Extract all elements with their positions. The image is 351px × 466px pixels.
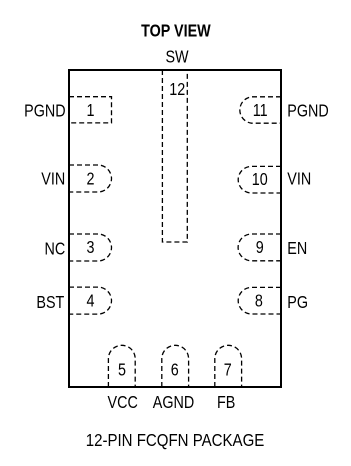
svg-text:PGND: PGND <box>24 102 65 121</box>
svg-text:EN: EN <box>287 240 307 259</box>
svg-text:1: 1 <box>87 102 95 121</box>
svg-text:VIN: VIN <box>41 170 65 189</box>
pin 6 AGND pad <box>162 345 189 387</box>
svg-text:TOP VIEW: TOP VIEW <box>141 22 211 41</box>
pin 10 VIN pad <box>238 166 281 193</box>
pin 11 PGND pad <box>240 97 281 123</box>
svg-text:4: 4 <box>87 292 95 311</box>
pin 9 EN pad <box>238 234 281 261</box>
svg-text:6: 6 <box>171 361 179 380</box>
svg-text:VIN: VIN <box>287 170 311 189</box>
svg-text:PG: PG <box>287 294 308 313</box>
svg-text:FB: FB <box>217 394 235 413</box>
svg-text:7: 7 <box>224 361 232 380</box>
svg-text:10: 10 <box>252 171 268 190</box>
pin 1 PGND pad <box>69 97 112 123</box>
svg-text:12: 12 <box>169 81 185 100</box>
svg-text:5: 5 <box>118 361 126 380</box>
svg-text:3: 3 <box>87 239 95 258</box>
svg-text:8: 8 <box>255 292 263 311</box>
svg-text:SW: SW <box>165 48 189 67</box>
svg-text:12-PIN FCQFN PACKAGE: 12-PIN FCQFN PACKAGE <box>86 431 265 450</box>
svg-text:AGND: AGND <box>153 394 194 413</box>
svg-text:2: 2 <box>87 170 95 189</box>
svg-text:BST: BST <box>36 294 64 313</box>
pin 3 NC pad <box>69 234 112 261</box>
pin 5 VCC pad <box>108 345 135 387</box>
svg-text:9: 9 <box>256 239 264 258</box>
pin 4 BST pad <box>69 287 112 314</box>
svg-text:VCC: VCC <box>108 394 138 413</box>
svg-text:11: 11 <box>253 102 268 121</box>
svg-text:NC: NC <box>44 240 65 259</box>
pin 2 VIN pad <box>69 165 112 192</box>
pin 8 PG pad <box>238 287 281 314</box>
pin 7 FB pad <box>215 345 242 387</box>
pin 12 SW pad <box>162 70 187 242</box>
package outline <box>69 70 281 387</box>
svg-text:PGND: PGND <box>287 102 328 121</box>
